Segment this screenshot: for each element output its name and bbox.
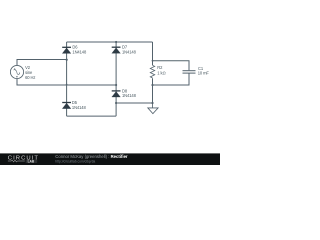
- footer bar: [0, 153, 220, 165]
- node top rail D7: [115, 41, 117, 43]
- label D5: [72, 100, 87, 110]
- voltage source V2: [10, 65, 23, 78]
- label D7: [122, 45, 137, 55]
- wire right column: [115, 42, 117, 116]
- svg-text:60 Hz: 60 Hz: [25, 75, 35, 80]
- wire R2 column upper: [152, 42, 154, 65]
- wire C1 top branch: [153, 61, 190, 70]
- logo LAB box: [26, 160, 38, 164]
- diode D7: [112, 47, 121, 53]
- svg-text:1N4148: 1N4148: [122, 93, 137, 98]
- capacitor C1: [183, 71, 196, 73]
- svg-text:R2: R2: [157, 65, 163, 70]
- node C1 bottom tap: [151, 84, 153, 86]
- svg-text:1 kΩ: 1 kΩ: [157, 70, 165, 75]
- label C1 value: [198, 66, 210, 76]
- node junction dots: [66, 41, 154, 104]
- wire source top: [17, 60, 67, 66]
- diode D8: [112, 91, 121, 97]
- node C1 top tap: [152, 60, 154, 62]
- diode D5: [62, 103, 71, 109]
- node D8 anode: [115, 102, 117, 104]
- svg-text:1N4148: 1N4148: [72, 50, 87, 55]
- wire bottom rail: [67, 115, 117, 117]
- wire top rail: [67, 41, 153, 43]
- svg-text:1N4148: 1N4148: [122, 50, 137, 55]
- svg-text:http://circuitlab.com/c6qv3a: http://circuitlab.com/c6qv3a: [55, 159, 95, 163]
- node source+ left mid: [66, 59, 68, 61]
- resistor R2: [150, 65, 154, 78]
- diode D6: [62, 47, 71, 53]
- node ground tap: [151, 102, 153, 104]
- svg-text:LAB: LAB: [28, 160, 35, 164]
- label D6: [72, 45, 87, 55]
- label R2 value: [157, 65, 165, 75]
- svg-text:Connor McKay (greenshell) : Re: Connor McKay (greenshell) : Rectifier: [55, 154, 128, 159]
- logo resistor line: [8, 160, 25, 162]
- node crossing hop: [66, 84, 68, 86]
- label D8: [122, 88, 137, 98]
- wire C1 bottom branch: [153, 74, 190, 86]
- wire output node: [116, 102, 152, 104]
- svg-text:10 mF: 10 mF: [198, 71, 210, 76]
- node source- right mid: [115, 84, 117, 86]
- wire left column: [66, 42, 68, 116]
- svg-text:1N4148: 1N4148: [72, 105, 87, 110]
- ground: [148, 103, 158, 114]
- label V2 value: [25, 65, 35, 80]
- wire R2 column lower: [152, 78, 154, 103]
- wire source bottom: [17, 79, 116, 86]
